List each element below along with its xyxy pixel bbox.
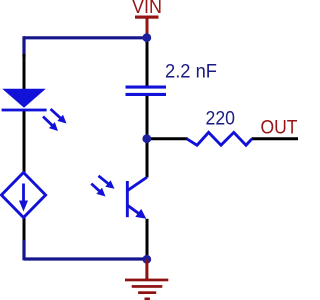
- wire left vertical top navy segment: [22, 36, 25, 57]
- phototransistor Q1 incident light arrow 2 head: [96, 188, 105, 197]
- wire left vertical black segment (to LED anode): [23, 54, 26, 89]
- LED D1 emission arrow 1 head: [57, 115, 66, 124]
- junction node at capacitor/resistor: [142, 134, 151, 143]
- wire left vertical bottom navy segment: [22, 240, 25, 260]
- wire capacitor bottom to transistor collector: [146, 96, 149, 178]
- ground symbol bar 2: [132, 285, 163, 288]
- junction node at ground: [142, 255, 151, 264]
- LED D1 emission arrow 1 shaft: [51, 109, 63, 119]
- phototransistor Q1 incident light arrow 1 shaft: [99, 176, 110, 185]
- capacitor C1 bottom plate: [126, 93, 167, 96]
- ground symbol bar 1: [125, 279, 168, 282]
- capacitor C1 top plate: [126, 86, 167, 89]
- svg-text:2.2 nF: 2.2 nF: [165, 60, 217, 82]
- LED D1 emission arrow 2 head: [49, 122, 58, 131]
- wire current source to bottom corner black segment: [23, 217, 26, 241]
- resistor R1 zigzag: [187, 132, 252, 145]
- ground symbol bar 3: [138, 291, 156, 294]
- wire bottom horizontal (navy): [24, 257, 147, 260]
- wire resistor to OUT edge: [252, 137, 299, 140]
- ground symbol stub: [145, 259, 148, 279]
- ground symbol bar 4: [145, 298, 150, 300]
- LED D1 anode triangle: [2, 89, 46, 108]
- wire LED cathode to current source: [23, 110, 26, 173]
- current source I1 arrow head: [19, 201, 28, 212]
- current source I1 arrow shaft: [22, 184, 25, 205]
- phototransistor Q1 incident light arrow 2 shaft: [91, 184, 101, 193]
- wire VIN junction to capacitor top: [146, 38, 149, 86]
- current source I1 diamond: [1, 173, 45, 218]
- phototransistor Q1 incident light arrow 1 head: [105, 180, 114, 189]
- phototransistor Q1 base bar: [126, 181, 129, 217]
- power symbol VIN T-bar: [135, 16, 159, 19]
- junction node at VIN: [142, 33, 151, 42]
- power symbol VIN stub: [146, 18, 149, 38]
- wire transistor emitter to ground junction: [146, 219, 149, 260]
- wire top horizontal (navy): [24, 36, 147, 39]
- phototransistor Q1 emitter lead: [128, 205, 142, 215]
- svg-text:VIN: VIN: [132, 0, 162, 18]
- phototransistor Q1 emitter arrow head: [135, 209, 146, 219]
- svg-text:220: 220: [206, 108, 236, 130]
- LED D1 emission arrow 2 shaft: [43, 117, 54, 127]
- wire middle junction to resistor: [147, 137, 188, 140]
- LED D1 cathode bar: [2, 109, 47, 112]
- svg-text:OUT: OUT: [261, 117, 298, 139]
- phototransistor Q1 collector lead: [128, 177, 147, 190]
